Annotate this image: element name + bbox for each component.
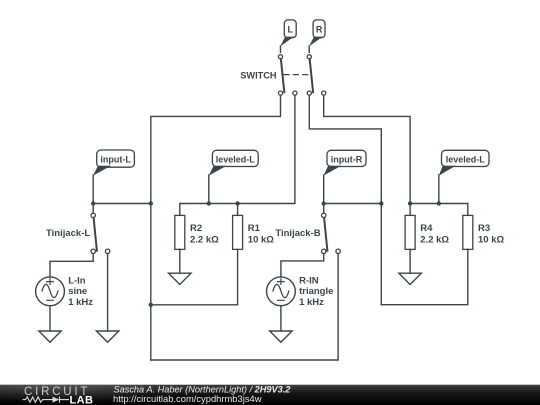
svg-text:R3: R3: [478, 223, 490, 234]
svg-text:Tinijack-L: Tinijack-L: [46, 228, 90, 239]
ground (under jack-L): [96, 331, 118, 342]
footer bar: [0, 376, 540, 405]
wire R-flag to switch R: [308, 46, 310, 52]
wire source L to ground: [49, 306, 51, 331]
node R1 top: [235, 201, 239, 205]
svg-text:L: L: [288, 25, 294, 35]
svg-text:input-L: input-L: [100, 154, 131, 164]
node input-L: [91, 201, 95, 205]
flag leveled-L (left): [209, 150, 258, 175]
svg-text:1 kHz: 1 kHz: [68, 297, 93, 308]
logo resistor+diode: [23, 397, 70, 403]
svg-text:SWITCH: SWITCH: [240, 70, 277, 80]
svg-text:LAB: LAB: [70, 394, 94, 405]
ground (under R4): [399, 273, 421, 284]
flag leveled-L (right): [439, 150, 489, 175]
svg-text:R4: R4: [420, 223, 433, 234]
svg-text:input-R: input-R: [331, 154, 363, 164]
wire R1 bottom to long vertical: [151, 249, 238, 304]
wire leveled-L right flag to node: [438, 175, 440, 204]
wire R3 bottom to input-R vertical: [381, 249, 468, 304]
wire input-R flag to node: [323, 175, 325, 204]
wire R4 to ground: [409, 249, 411, 273]
wire: switch L throw2 down to leveled-L row: [180, 95, 295, 215]
wire R2 to ground: [179, 249, 181, 273]
jack J1 Tinijack-L: [91, 204, 110, 254]
wire jack-L throw1 to source L: [50, 254, 93, 277]
node input-R: [322, 201, 326, 205]
flag input-L: [93, 150, 134, 176]
svg-text:leveled-L: leveled-L: [216, 154, 256, 164]
switch SW1 (L): [278, 55, 297, 95]
wire input-R row: [324, 203, 382, 205]
resistor R4: [405, 204, 449, 250]
wire leveled row right: [410, 204, 468, 216]
svg-text:10 kΩ: 10 kΩ: [248, 234, 274, 245]
ground (under R-IN): [270, 331, 292, 342]
svg-text:sine: sine: [68, 286, 87, 297]
wire: switch L throw1 to long vertical: [151, 95, 281, 360]
wire: switch R throw2 to leveled row right: [324, 95, 410, 203]
node leveled-L right: [437, 201, 441, 205]
ground (under R2): [169, 273, 191, 284]
svg-text:2.2 kΩ: 2.2 kΩ: [190, 234, 219, 245]
switch SW2 (R): [307, 55, 326, 95]
wire input-L row: [93, 203, 151, 205]
resistor R3: [463, 215, 505, 249]
resistor R2: [175, 215, 219, 249]
jack J2 Tinijack-B: [322, 204, 341, 254]
svg-text:triangle: triangle: [299, 286, 333, 297]
bottom rail to jack-B throw2: [151, 254, 338, 360]
svg-text:R1: R1: [248, 223, 261, 234]
svg-text:L-In: L-In: [68, 276, 86, 287]
svg-text:2.2 kΩ: 2.2 kΩ: [420, 234, 449, 245]
svg-text:http://circuitlab.com/cypdhrmb: http://circuitlab.com/cypdhrmb3js4w: [113, 393, 262, 404]
flag input-R: [324, 150, 367, 175]
resistor R1: [233, 204, 275, 250]
svg-text:R: R: [316, 25, 323, 35]
node long vertical / input-L: [149, 201, 153, 205]
wire L-flag to switch L: [279, 46, 281, 52]
node leveled-L: [207, 201, 211, 205]
source V1 L-In: [36, 277, 65, 306]
wire input-L flag to node: [92, 175, 94, 204]
wire source R to ground: [280, 306, 282, 331]
svg-text:Tinijack-B: Tinijack-B: [275, 228, 320, 239]
svg-text:leveled-L: leveled-L: [446, 154, 486, 164]
wire leveled-L flag to node: [208, 175, 210, 204]
wire: switch R throw1 to input-R vertical: [309, 95, 381, 304]
source V2 R-IN: [267, 277, 296, 306]
flag R: [309, 20, 325, 47]
node R4 top: [408, 201, 412, 205]
ground (under L-In): [39, 331, 61, 342]
switch gang dashed link: [284, 74, 309, 76]
svg-text:R-IN: R-IN: [299, 276, 319, 287]
node R1-bottom / long vertical: [149, 303, 153, 307]
svg-text:R2: R2: [190, 223, 202, 234]
flag L: [280, 20, 296, 47]
svg-text:1 kHz: 1 kHz: [299, 297, 324, 308]
wire jack-B throw1 to source R: [281, 254, 324, 277]
wire jack-L throw2 to ground: [107, 254, 109, 331]
svg-text:10 kΩ: 10 kΩ: [478, 234, 504, 245]
node input-R / switch R vertical: [379, 201, 383, 205]
